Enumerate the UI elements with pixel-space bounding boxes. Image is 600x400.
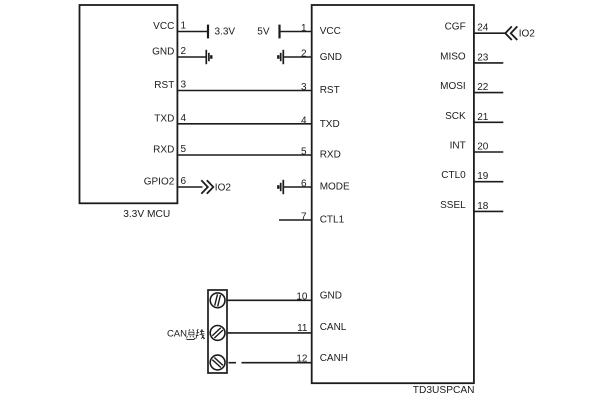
svg-text:VCC: VCC	[320, 26, 341, 37]
svg-text:5: 5	[181, 144, 187, 155]
svg-text:19: 19	[477, 171, 489, 182]
svg-text:TD3USPCAN: TD3USPCAN	[413, 385, 475, 396]
wire ground to IC pin6 MODE	[283, 186, 311, 188]
connector chevrons IO2 (right-pointing)	[201, 180, 213, 194]
svg-text:GND: GND	[152, 47, 174, 58]
ground symbol at MCU pin2	[206, 50, 211, 64]
wire TXD net MCU pin4 to IC pin4	[177, 123, 311, 125]
hanzi 线	[196, 329, 205, 339]
svg-text:GND: GND	[320, 291, 342, 302]
svg-text:VCC: VCC	[153, 21, 174, 32]
svg-text:MOSI: MOSI	[440, 81, 466, 92]
svg-text:2: 2	[181, 46, 187, 57]
svg-text:5V: 5V	[257, 27, 270, 38]
svg-text:CGF: CGF	[445, 22, 466, 33]
wire 5V rail to IC pin1 VCC	[280, 31, 312, 33]
power rail bar 5V	[278, 25, 280, 39]
svg-text:23: 23	[477, 52, 489, 63]
wire stub IC pin23 MISO	[474, 62, 503, 64]
svg-text:SCK: SCK	[445, 111, 466, 122]
CAN terminal block J1	[208, 290, 227, 373]
svg-text:24: 24	[477, 23, 489, 34]
svg-text:IO2: IO2	[215, 183, 232, 194]
wire terminal3 to IC pin12 CANH	[242, 362, 312, 364]
ground symbol at IC pin2	[278, 50, 283, 64]
svg-text:GPIO2: GPIO2	[144, 177, 175, 188]
connector chevrons IO2 (left-pointing)	[505, 26, 517, 40]
svg-text:20: 20	[477, 142, 489, 153]
wire RXD net MCU pin5 to IC pin5	[177, 154, 311, 156]
svg-text:6: 6	[301, 179, 307, 190]
svg-text:2: 2	[301, 49, 307, 60]
svg-text:GND: GND	[320, 52, 342, 63]
wire stub IC pin7 CTL1	[279, 219, 312, 221]
svg-text:CTL0: CTL0	[441, 170, 466, 181]
svg-text:3: 3	[181, 80, 187, 91]
wire MCU pin1 VCC to 3.3V rail	[177, 31, 208, 33]
svg-text:RST: RST	[154, 80, 174, 91]
svg-text:3: 3	[301, 82, 307, 93]
svg-text:1: 1	[181, 21, 187, 32]
wire stub IC pin19 CTL0	[474, 181, 503, 183]
wire terminal3 to IC pin12 CANH (dash)	[229, 362, 237, 364]
IC U2 TD3USPCAN box	[312, 5, 474, 383]
wire RST net MCU pin3 to IC pin3	[177, 90, 311, 92]
power rail bar 3.3V	[207, 25, 209, 39]
svg-text:TXD: TXD	[154, 113, 174, 124]
svg-text:MODE: MODE	[320, 182, 350, 193]
svg-text:IO2: IO2	[519, 29, 536, 40]
svg-text:3.3V: 3.3V	[215, 26, 236, 37]
wire stub IC pin22 MOSI	[474, 92, 503, 94]
svg-text:7: 7	[301, 212, 307, 223]
svg-text:6: 6	[181, 176, 187, 187]
wire stub IC pin18 SSEL	[474, 210, 503, 212]
svg-text:CANL: CANL	[320, 322, 347, 333]
wire MCU pin2 GND to ground	[177, 56, 206, 58]
svg-text:CANH: CANH	[320, 353, 348, 364]
wire terminal1 to IC pin10 GND	[227, 299, 312, 301]
svg-text:21: 21	[477, 112, 489, 123]
svg-text:1: 1	[301, 23, 307, 34]
screw terminal 1	[210, 293, 225, 308]
svg-text:3.3V MCU: 3.3V MCU	[123, 209, 170, 220]
svg-text:CTL1: CTL1	[320, 215, 345, 226]
svg-text:INT: INT	[450, 141, 466, 152]
wire stub IC pin20 INT	[474, 151, 503, 153]
hanzi 总	[187, 329, 195, 339]
wire stub IC pin21 SCK	[474, 121, 503, 123]
svg-text:22: 22	[477, 82, 489, 93]
svg-text:4: 4	[181, 113, 187, 124]
svg-text:RST: RST	[320, 85, 340, 96]
svg-text:MISO: MISO	[440, 51, 466, 62]
svg-text:18: 18	[477, 201, 489, 212]
screw terminal 2	[210, 326, 225, 341]
wire IC pin24 CGF to IO2 connector	[474, 32, 505, 34]
wire ground to IC pin2 GND	[283, 56, 311, 58]
svg-text:CAN: CAN	[167, 329, 187, 340]
wire terminal2 to IC pin11 CANL	[227, 332, 312, 334]
svg-text:TXD: TXD	[320, 119, 340, 130]
MCU U1 box	[80, 5, 178, 203]
wire MCU pin6 GPIO2 to IO2 connector	[177, 186, 202, 188]
ground symbol at IC pin6 MODE	[278, 180, 283, 194]
svg-text:5: 5	[301, 147, 307, 158]
svg-text:SSEL: SSEL	[440, 200, 466, 211]
svg-text:RXD: RXD	[320, 150, 341, 161]
svg-text:4: 4	[301, 115, 307, 126]
screw terminal 3	[210, 355, 225, 370]
svg-text:RXD: RXD	[153, 145, 174, 156]
